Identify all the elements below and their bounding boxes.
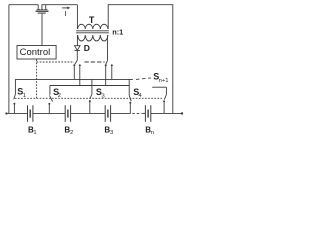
svg-text:n:1: n:1 (112, 27, 123, 36)
svg-text:2: 2 (58, 93, 61, 99)
svg-text:1: 1 (33, 130, 36, 136)
svg-text:I: I (65, 9, 67, 18)
svg-text:3: 3 (102, 93, 105, 99)
svg-text:D: D (84, 43, 90, 53)
svg-text:2: 2 (70, 130, 73, 136)
svg-text:3: 3 (110, 130, 113, 136)
svg-text:T: T (89, 15, 95, 25)
svg-text:n: n (151, 130, 154, 136)
svg-text:4: 4 (138, 93, 142, 99)
svg-text:1: 1 (23, 93, 26, 99)
svg-text:n+1: n+1 (159, 78, 169, 84)
svg-text:Control: Control (20, 47, 51, 58)
